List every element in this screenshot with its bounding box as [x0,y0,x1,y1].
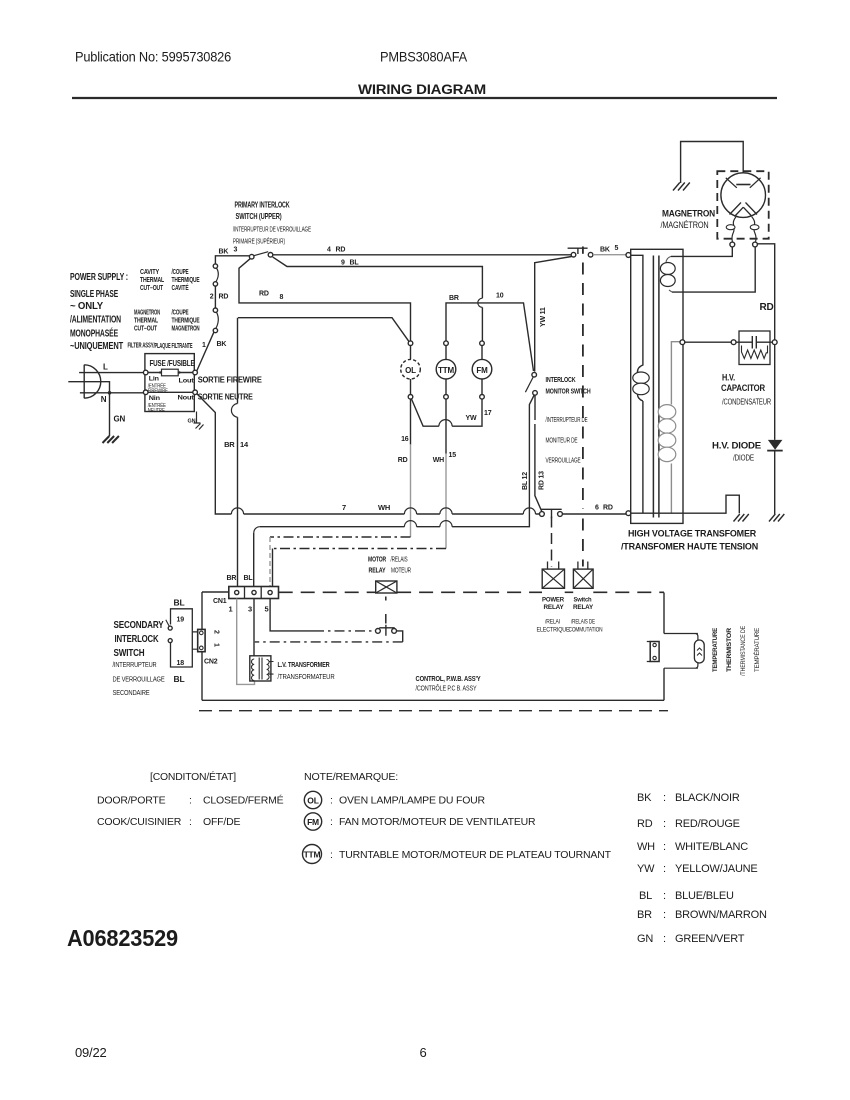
svg-text:MAGNETRON: MAGNETRON [662,209,715,219]
svg-text:Lin: Lin [149,376,159,383]
svg-text:/ALIMENTATION: /ALIMENTATION [70,314,121,326]
wire 7 WH hop over wire12 [523,508,535,514]
svg-text:5: 5 [615,245,619,252]
svg-text:BL: BL [174,674,185,684]
primary interlock switch label [235,201,290,222]
svg-text:TEMPERATURE: TEMPERATURE [712,627,719,672]
wire 12 BL corner arc [254,527,260,533]
svg-text:RD: RD [637,818,653,830]
svg-text:/THERMISTANCE DE: /THERMISTANCE DE [740,625,747,676]
wire 12 BL hop over wire16 [404,521,416,527]
connector CN2 [192,632,197,649]
wire 12 BL hop over wire15 [440,521,452,527]
svg-text:/TRANSFORMATEUR: /TRANSFORMATEUR [278,674,335,681]
svg-text:TTM: TTM [304,850,321,860]
magnetron filament left lead [732,217,736,242]
svg-text:BK: BK [217,341,227,348]
wire filament right to transformer winding [672,247,755,292]
svg-text:RD: RD [398,457,408,464]
svg-text:FILTER ASSY: FILTER ASSY [128,343,154,350]
motor relay K3 coil box [376,581,397,593]
svg-text:15: 15 [449,452,457,459]
motor relay contact pair [376,629,381,634]
control PWB bottom edge [202,699,664,701]
power relay linkage [551,517,553,567]
svg-text:THERMIQUE: THERMIQUE [172,277,200,284]
svg-text:2: 2 [213,630,220,634]
wire 5 BK contact to HV transformer [593,254,626,256]
svg-text::: : [663,792,666,804]
cavity thermal cut-out switch [213,282,217,286]
svg-text:/CONDENSATEUR: /CONDENSATEUR [722,398,771,407]
svg-text:BR: BR [449,295,459,302]
switch relay K2 coil box [573,569,593,588]
filter assy / fuse box [145,354,194,412]
svg-text:/INTERRUPTEUR: /INTERRUPTEUR [113,660,157,669]
oven lamp OL [401,359,421,379]
wire 14 BR detour loop [231,404,237,418]
svg-text:YW: YW [466,415,477,422]
svg-text:1: 1 [229,605,233,614]
svg-text:/COUPE: /COUPE [172,310,189,317]
svg-text:THERMIQUE: THERMIQUE [172,318,200,325]
svg-text:INTERLOCK: INTERLOCK [115,634,159,645]
wire secondary to HV capacitor [685,341,731,343]
svg-text:DE VERROUILLAGE: DE VERROUILLAGE [113,675,165,684]
AC plug [84,365,101,398]
svg-text:16: 16 [401,436,409,443]
svg-text:CAVITÉ: CAVITÉ [172,283,189,292]
svg-text:Nout: Nout [178,395,195,402]
svg-text:SECONDARY: SECONDARY [114,620,165,631]
filter terminal labels [149,376,195,403]
svg-text:RD 13: RD 13 [539,471,546,490]
svg-text:~UNIQUEMENT: ~UNIQUEMENT [70,340,124,352]
svg-text::: : [663,933,666,945]
wire 2 RD between cut-outs [214,286,216,308]
wire 15 WH turntable feeder [445,399,447,453]
wire 15 WH link to CN1 pin5 [273,548,447,550]
wire L prong [79,372,143,374]
svg-text:/MAGNÉTRON: /MAGNÉTRON [661,220,709,230]
switch relay label [569,597,603,634]
legend condition table [97,770,612,861]
wire Nin to Nout [148,391,193,393]
wire RD filament to HV capacitor and diode [757,244,774,440]
svg-text:/COUPE: /COUPE [172,269,189,276]
wire 12 BL monitor switch to CN1 pin3 [254,395,535,590]
svg-text:WH: WH [378,503,390,512]
svg-text:/INTERRUPTEUR DE: /INTERRUPTEUR DE [546,417,588,424]
power relay K1 coil box [542,569,564,588]
svg-text:WIRING DIAGRAM: WIRING DIAGRAM [358,82,486,97]
svg-text:/RELAIS DE: /RELAIS DE [571,619,595,626]
magnetron anode wire to ground [681,142,744,185]
svg-text:Switch: Switch [574,597,592,604]
svg-text:SECONDAIRE: SECONDAIRE [113,688,150,697]
svg-text:/CONTRÔLE P.C B. ASSY: /CONTRÔLE P.C B. ASSY [416,684,477,693]
power supply note text [70,271,128,352]
svg-text:CLOSED/FERMÉ: CLOSED/FERMÉ [203,794,284,807]
svg-text:RD: RD [603,505,613,512]
magnetron filament terminals [730,242,735,247]
svg-text:ELECTRIQUE: ELECTRIQUE [537,627,571,634]
svg-text:Lout: Lout [179,378,195,385]
svg-text:SWITCH: SWITCH [114,648,145,659]
terminal 6RD on transformer [626,511,631,516]
svg-text:SWITCH (UPPER): SWITCH (UPPER) [236,212,282,221]
svg-text:Nin: Nin [149,395,160,402]
svg-text:FM: FM [476,366,488,375]
switch relay coil pins [578,562,588,570]
svg-text:YELLOW/JAUNE: YELLOW/JAUNE [675,863,758,875]
svg-text:/RELAI: /RELAI [545,619,560,626]
HV capacitor plates [736,336,772,349]
svg-text:9: 9 [341,260,345,267]
connector CN1 [229,587,279,599]
temperature thermistor label (rotated) [712,625,761,676]
magnetron thermal cut-out switch [213,328,217,332]
svg-text:H.V. DIODE: H.V. DIODE [712,441,761,452]
svg-text:8: 8 [280,294,284,301]
legend OL symbol [304,791,321,808]
legend wire colors [637,792,767,945]
svg-text:MONITEUR DE: MONITEUR DE [546,438,578,445]
ground (HV diode) [769,514,784,522]
svg-text:PMBS3080AFA: PMBS3080AFA [380,50,467,65]
svg-text:COMMUTATION: COMMUTATION [569,627,603,634]
svg-text:BL: BL [174,598,185,608]
svg-text:SORTIE FIREWIRE: SORTIE FIREWIRE [198,376,262,385]
svg-text:HIGH VOLTAGE TRANSFOMER: HIGH VOLTAGE TRANSFOMER [628,529,756,540]
svg-text:GN: GN [188,419,196,425]
wire N prong [80,392,143,394]
svg-text:MAGNETRON: MAGNETRON [172,326,200,333]
wire 1 BK Lout to magnetron thermal cut-out [197,332,214,371]
ground GN stub of filter assy [194,412,204,430]
svg-text::: : [663,863,666,875]
svg-text:POWER SUPPLY :: POWER SUPPLY : [70,271,128,283]
svg-text:TURNTABLE MOTOR/MOTEUR DE PLA: TURNTABLE MOTOR/MOTEUR DE PLATEAU TOURNA… [339,849,612,861]
transformer core lines [653,256,659,518]
svg-text:[CONDITON/ÉTAT]: [CONDITON/ÉTAT] [150,770,236,783]
wire CN1 pin3 to LV transformer [253,599,255,656]
svg-text:VERROUILLAGE: VERROUILLAGE [546,458,581,465]
svg-text:CN1: CN1 [213,598,227,605]
transformer filament winding [666,256,672,292]
svg-text:TEMPÉRATURE: TEMPÉRATURE [752,627,761,672]
svg-text:Publication No: 5995730826: Publication No: 5995730826 [75,50,231,65]
terminal Nout [193,390,198,395]
wire 4 RD to switch relay contact [273,254,571,256]
svg-text:BLUE/BLEU: BLUE/BLEU [675,890,734,902]
svg-text:YW 11: YW 11 [540,307,547,327]
wire 7 WH hop over wire15 [440,508,452,514]
wire CN1 pin1 to LV transformer (grey) [237,599,255,685]
svg-text:1: 1 [202,342,206,349]
svg-text:DOOR/PORTE: DOOR/PORTE [97,795,166,807]
svg-text:CAPACITOR: CAPACITOR [721,383,765,394]
svg-text:09/22: 09/22 [75,1045,107,1060]
svg-text:BR: BR [637,909,652,921]
wire 13 RD monitor switch to power relay contact [535,395,542,512]
wire 3 BK cut-out to primary interlock [215,256,249,264]
svg-text:3: 3 [234,247,238,254]
svg-text::: : [663,818,666,830]
svg-text:RD: RD [219,294,229,301]
LV transformer T2 [250,656,271,681]
power relay coil pins [548,562,559,570]
control PWB right edge upper [663,593,665,634]
svg-text:/RELAIS: /RELAIS [391,557,408,564]
svg-text:THERMISTOR: THERMISTOR [726,628,733,672]
wire 16 RD oven lamp feeder [410,399,412,444]
high voltage transformer T1 box [631,249,683,523]
svg-text:/TRANSFOMER HAUTE TENSION: /TRANSFOMER HAUTE TENSION [621,542,758,553]
svg-text:PRIMARY INTERLOCK: PRIMARY INTERLOCK [235,201,290,210]
magnetron anode bar [736,184,750,186]
HV capacitor C1 box [739,331,770,365]
svg-text:17: 17 [484,410,492,417]
svg-text:MOTEUR: MOTEUR [391,568,411,575]
svg-text:L.V. TRANSFORMER: L.V. TRANSFORMER [278,662,330,669]
chassis boundary dashed line (switch relay linkage) [582,247,584,254]
wire 17 YW hop over TTM wire [439,420,452,427]
control PWB top edge left solid [202,591,229,593]
svg-text:CONTROL, P.W.B. ASS'Y: CONTROL, P.W.B. ASS'Y [416,674,481,683]
wire motor relay contact return [397,631,403,642]
transformer primary winding [631,255,643,513]
svg-text:GN: GN [637,933,653,945]
svg-text::: : [663,890,666,902]
svg-text:FM: FM [307,817,319,827]
junction GN x N [108,391,112,395]
wire 6 RD contact to transformer [562,513,626,515]
svg-text:FUSE /FUSIBLE: FUSE /FUSIBLE [150,358,195,368]
chassis dashed line below PWB [199,710,668,712]
svg-text:POWER: POWER [542,597,564,604]
motor relay linkage [385,597,387,624]
terminal secondary junction [680,340,685,345]
HV capacitor C1 terminals [731,340,736,345]
svg-text:WH: WH [433,457,444,464]
svg-text::: : [663,909,666,921]
svg-text:YW: YW [637,863,655,875]
svg-text:MOTOR: MOTOR [368,557,386,564]
svg-text:RELAY: RELAY [573,604,594,611]
svg-text:18: 18 [177,660,185,667]
svg-text:RED/ROUGE: RED/ROUGE [675,818,740,830]
control PWB top edge dashed segments [279,591,376,593]
control PWB left edge [201,592,203,700]
svg-text:BL: BL [639,890,652,902]
svg-text:FIREWIRE: FIREWIRE [148,388,168,394]
wire 16 RD link to CN1 pin5 [270,536,411,538]
svg-text:SORTIE NEUTRE: SORTIE NEUTRE [198,393,253,402]
secondary interlock switch S2 body [171,609,193,667]
svg-text:BL 12: BL 12 [522,472,529,490]
svg-text:RD: RD [760,302,774,313]
svg-text:14: 14 [240,440,249,449]
wire 8 RD from interlock to oven lamp [239,259,411,341]
svg-text:CUT–OUT: CUT–OUT [140,285,164,292]
svg-text:SINGLE PHASE: SINGLE PHASE [70,288,118,300]
svg-text:INTERLOCK: INTERLOCK [546,375,577,384]
svg-text:TTM: TTM [438,366,454,375]
terminal Lout [193,370,198,375]
svg-text:6: 6 [420,1045,427,1060]
svg-text:RELAY: RELAY [544,604,565,611]
temperature thermistor connector [664,634,698,669]
magnetron tube body [721,173,766,218]
fan motor FM terminals [480,341,485,346]
svg-text:MAGNETRON: MAGNETRON [134,310,160,317]
svg-text:A06823529: A06823529 [67,925,178,951]
wire 17 YW oven lamp to fan motor [412,399,483,426]
wire 6 RD bottom of transformer to ground [631,495,740,513]
magnetron filament right lead [752,217,756,242]
svg-text:5: 5 [265,605,269,614]
svg-text:L: L [103,363,108,372]
legend TTM symbol [303,845,322,864]
wire 14 BR down to CN1 pin1 [237,318,239,591]
svg-text:/DIODE: /DIODE [733,454,754,463]
wire 7 WH hop over BR14 [231,508,243,514]
switch relay contact pair (wire4/BK5) [571,252,576,257]
svg-text:NOTE/REMARQUE:: NOTE/REMARQUE: [304,771,398,783]
svg-text:OFF/DE: OFF/DE [203,816,240,828]
svg-text:BL: BL [244,575,254,582]
secondary interlock switch S2 label [114,620,165,659]
svg-text:BR: BR [227,575,237,582]
svg-text:PRIMAIRE (SUPÉRIEUR): PRIMAIRE (SUPÉRIEUR) [233,237,285,246]
svg-text:6: 6 [595,505,599,512]
svg-text:BL: BL [350,260,360,267]
svg-text::: : [663,841,666,853]
svg-text:/PLAQUE FILTRANTE: /PLAQUE FILTRANTE [154,343,193,350]
ground GN (mains) [103,436,119,443]
svg-text:CAVITY: CAVITY [140,269,159,276]
svg-text:NEUTRE: NEUTRE [148,408,165,414]
svg-text:/INTERRUPTEUR DE VERROUILLAGE: /INTERRUPTEUR DE VERROUILLAGE [233,227,311,234]
magnetron shield dashed box [717,171,768,239]
svg-text:3: 3 [248,605,252,614]
svg-text:BR: BR [224,440,235,449]
svg-text:7: 7 [342,503,346,512]
svg-text:CUT–OUT: CUT–OUT [134,326,158,333]
svg-text:4: 4 [327,247,331,254]
svg-text::: : [330,849,333,861]
interlock monitor switch label [546,375,591,396]
LV transformer secondary stubs [269,662,274,675]
oven lamp OL terminals [408,341,413,346]
ground (magnetron) [673,183,690,191]
svg-text:BK: BK [219,249,229,256]
wire 9 BL from interlock down to fan motor [273,257,483,341]
svg-text:OL: OL [405,366,416,375]
switch relay contact bar [568,248,588,254]
svg-text::: : [189,816,192,828]
terminal Lin [143,370,148,375]
wire 11 YW from relay contact down to monitor switch [535,257,572,372]
fan motor FM [472,359,492,379]
HV diode D1 [768,440,783,450]
svg-text:THERMAL: THERMAL [140,277,165,284]
svg-text::: : [330,816,333,828]
svg-text:10: 10 [496,293,504,300]
magnetron internal electrodes [726,178,761,217]
ground (HV transformer) [734,514,749,522]
svg-text:GN: GN [114,415,126,424]
svg-text:1: 1 [213,643,220,647]
svg-text::: : [189,795,192,807]
header rule [72,97,777,99]
turntable motor TTM terminals [444,341,449,346]
svg-text:RD: RD [336,247,346,254]
svg-text:BK: BK [600,247,610,254]
transformer secondary winding [658,342,680,513]
wire 7 WH neutral from Nout to power relay contact [197,394,539,514]
HV capacitor bleed resistor [742,346,768,359]
wire CN1 pin5 to motor relay contact [270,599,314,631]
svg-text:RELAY: RELAY [369,568,386,575]
svg-text:19: 19 [177,617,185,624]
svg-text:GREEN/VERT: GREEN/VERT [675,933,745,945]
fuse F1 [148,372,193,374]
wire 7 WH hop over wire16 [404,508,416,514]
terminal Nin [143,390,148,395]
svg-text:FAN MOTOR/MOTEUR DE VENTILATEU: FAN MOTOR/MOTEUR DE VENTILATEUR [339,816,536,828]
power relay contact pair (wire7/wire6) [540,512,545,517]
svg-text:BLACK/NOIR: BLACK/NOIR [675,792,740,804]
legend FM symbol [304,813,321,830]
svg-text:CN2: CN2 [204,659,218,666]
primary interlock switch S1 [249,254,254,259]
svg-text:2: 2 [210,294,214,301]
svg-text:WH: WH [637,841,655,853]
svg-text::: : [330,795,333,807]
interlock monitor switch S4 [532,372,537,377]
turntable motor TTM [436,359,456,379]
wire filament left to transformer [671,247,732,256]
svg-text:N: N [101,395,107,404]
wire 10 BR turntable to monitor switch [446,303,534,371]
svg-text:RD: RD [259,291,269,298]
wire GN prong to ground [68,382,109,436]
svg-text:COOK/CUISINIER: COOK/CUISINIER [97,816,182,828]
wire diode to ground [774,451,776,514]
terminal BK5 on transformer [626,253,631,258]
svg-text:H.V.: H.V. [722,373,735,384]
cavity thermal cut-out label [128,269,207,350]
svg-text:BROWN/MARRON: BROWN/MARRON [675,909,767,921]
svg-text:BK: BK [637,792,652,804]
wire cavity top edge to oven lamp [238,318,409,342]
temperature thermistor RT1 [694,640,704,663]
svg-text:WHITE/BLANC: WHITE/BLANC [675,841,748,853]
power relay contact bar [541,509,562,518]
svg-text:OVEN LAMP/LAMPE DU FOUR: OVEN LAMP/LAMPE DU FOUR [339,795,486,807]
wire 9 BL hop over wire 10 [478,298,483,307]
svg-text:~ ONLY: ~ ONLY [70,300,103,312]
svg-text:OL: OL [307,796,318,806]
svg-text:MONOPHASÉE: MONOPHASÉE [70,327,118,340]
power relay label [537,597,571,634]
control PWB right edge lower [663,668,665,700]
svg-text:THERMAL: THERMAL [134,318,159,325]
